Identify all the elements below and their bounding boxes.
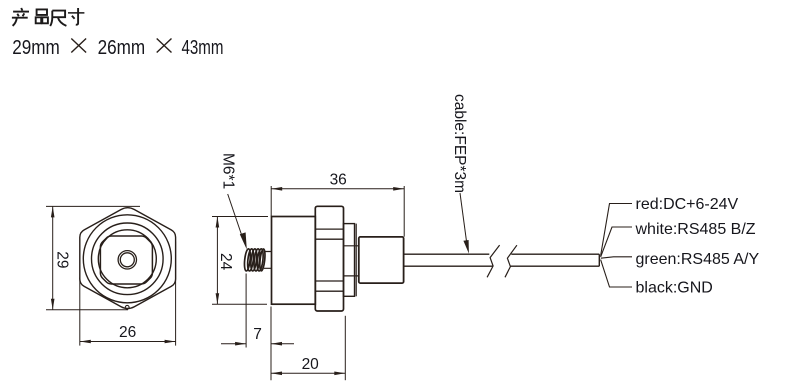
title 产品尺寸: [12, 8, 85, 26]
尺: [52, 11, 65, 18]
svg-text:29mm: 29mm: [12, 36, 60, 59]
寸: [68, 12, 84, 14]
svg-text:red:DC+6-24V: red:DC+6-24V: [636, 196, 739, 213]
washer ring second edge: [355, 224, 357, 297]
svg-text:white:RS485 B/Z: white:RS485 B/Z: [635, 221, 756, 238]
small vent hole: [125, 305, 129, 309]
chamfer circle outer: [83, 215, 171, 303]
dimension 24: [212, 217, 268, 305]
wire black: [601, 260, 632, 287]
品: [37, 9, 47, 15]
dimension 36: [271, 172, 404, 237]
svg-text:cable:FEP*3m: cable:FEP*3m: [451, 94, 468, 193]
wire green: [601, 257, 632, 258]
subtitle 29mm x 26mm x 43mm: [12, 36, 223, 59]
dimension 29: [46, 206, 140, 309]
sensor body cylinder: [272, 217, 316, 305]
cable right segment: [510, 254, 599, 266]
svg-text:43mm: 43mm: [182, 36, 224, 59]
label M6*1 with leader arrow: [220, 153, 247, 250]
break mark left: [487, 245, 500, 277]
svg-text:24: 24: [217, 253, 234, 271]
svg-text:20: 20: [302, 356, 320, 373]
svg-text:26: 26: [119, 324, 136, 341]
svg-text:26mm: 26mm: [98, 36, 146, 59]
hex nut: [315, 206, 343, 311]
wire white: [601, 227, 632, 257]
svg-text:29: 29: [53, 251, 70, 268]
dimension 20: [271, 316, 345, 380]
dimension 26: [80, 242, 176, 346]
svg-text:7: 7: [253, 326, 262, 343]
svg-text:black:GND: black:GND: [636, 280, 713, 297]
rounded square face: [100, 236, 152, 284]
port circle outer: [118, 251, 136, 269]
port circle inner: [120, 253, 134, 267]
hexagon body outline: [80, 208, 176, 309]
break mark right: [505, 245, 517, 277]
wire red: [601, 204, 632, 256]
svg-text:36: 36: [330, 172, 347, 189]
hex nut flat lines: [315, 229, 343, 291]
boss circle: [98, 230, 156, 288]
产: [21, 8, 22, 11]
chamfer circle inner: [92, 223, 164, 295]
washer ring: [344, 224, 355, 297]
svg-text:M6*1: M6*1: [220, 153, 237, 189]
thread to body neck lines: [264, 252, 272, 269]
label cable:FEP*3m with leader arrow: [451, 94, 469, 254]
cable connector block: [359, 237, 404, 283]
dimension 7: [221, 274, 294, 381]
thread coil M6 stud: [244, 249, 266, 272]
shaft lines: [344, 246, 359, 276]
cable left segment: [404, 254, 493, 266]
svg-text:green:RS485 A/Y: green:RS485 A/Y: [636, 251, 760, 268]
